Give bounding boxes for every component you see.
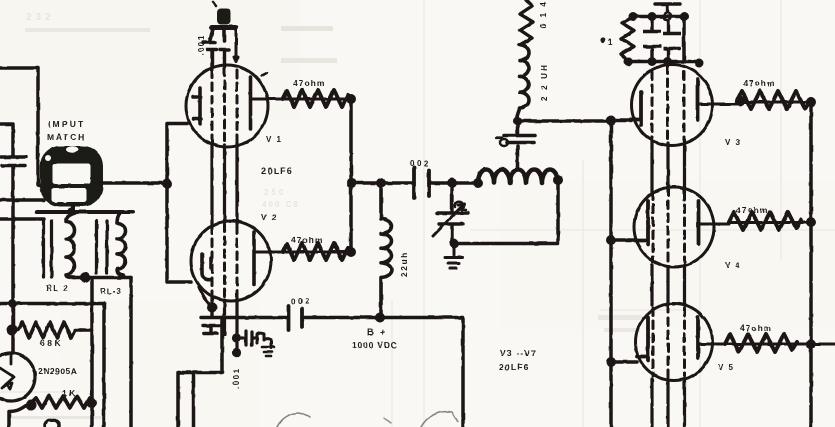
node 47ohm V4 right — [806, 217, 816, 227]
antenna T top — [655, 4, 680, 12]
node bus top — [346, 94, 356, 104]
node 47ohm V5 right — [806, 339, 816, 349]
label .01 circle — [500, 139, 508, 146]
wire right leg — [682, 17, 686, 62]
tube V4 envelope — [634, 187, 714, 267]
svg-text:V 2: V 2 — [261, 213, 278, 222]
plate V5 — [696, 317, 700, 358]
wire .01 to junction — [516, 121, 520, 136]
wire 68K right to bus — [81, 328, 92, 332]
svg-text:47ohm: 47ohm — [743, 78, 775, 88]
plate V3 — [696, 79, 700, 120]
wire stub y219 — [0, 217, 44, 221]
cathode V2 — [202, 254, 211, 280]
tube V1 envelope — [186, 65, 268, 147]
svg-text:20LF6: 20LF6 — [261, 166, 293, 176]
grid V5 (dashed) — [653, 305, 685, 379]
svg-text:232: 232 — [26, 12, 55, 23]
ground heater — [262, 347, 274, 356]
svg-text:1: 1 — [608, 38, 613, 47]
node lower rail 2 — [663, 57, 672, 66]
wire transformer bottom bar — [74, 276, 131, 279]
cathode V4 — [635, 201, 648, 244]
wire cathode lead V2 — [199, 287, 211, 306]
inductor 22uh — [381, 183, 392, 318]
node grid bus top — [606, 116, 616, 126]
wire C002 to trimmer node — [429, 181, 452, 185]
node rail-left — [8, 299, 17, 308]
heater columns below V5 — [652, 379, 685, 427]
resistor 47ohm V1 — [283, 90, 351, 107]
node grid bus V5 — [606, 357, 616, 367]
inductor 2.2UH — [517, 45, 529, 121]
node coil right — [553, 175, 563, 185]
wire toroid output — [99, 181, 167, 185]
capacitor .002 upper — [414, 168, 429, 198]
node coil left — [473, 178, 483, 188]
heater columns V1-V2 — [212, 143, 237, 224]
svg-text:20LF6: 20LF6 — [499, 362, 530, 372]
wire transformer top rail — [37, 210, 133, 214]
node .01 top — [513, 117, 522, 126]
wire V5 grid entry — [611, 360, 637, 364]
wire neutralizing top rail — [631, 15, 684, 19]
wire lower rail — [628, 60, 699, 64]
resistor 47ohm V5 — [725, 334, 797, 352]
wire cap right leg to tube — [234, 28, 238, 63]
capacitor .01 — [504, 136, 535, 143]
node 47ohm V3 left — [735, 96, 745, 106]
heater columns V3-V4 — [652, 140, 685, 192]
wire C002 to B+ box — [302, 316, 463, 320]
heater columns below V2 — [212, 298, 237, 354]
resistor 68K — [12, 322, 81, 338]
node heater junction 2 — [232, 348, 241, 357]
node grid bus V4 — [606, 235, 616, 245]
node rail 2 — [648, 12, 657, 21]
handwriting mark 2 — [384, 418, 391, 423]
svg-text:47ohm: 47ohm — [291, 235, 323, 245]
wire lower rail y307 — [0, 302, 104, 306]
inductor small bottom-left — [45, 420, 59, 427]
tube V3 envelope — [632, 65, 713, 146]
capacitor neutralizing 2 — [663, 20, 681, 62]
svg-text:V3 --V7: V3 --V7 — [500, 348, 537, 358]
plate V4 — [697, 201, 701, 244]
svg-text:68K: 68K — [40, 338, 63, 348]
svg-text:V 5: V 5 — [718, 363, 735, 372]
grid V2 (dashed) — [212, 224, 237, 299]
node transformer bottom — [80, 272, 90, 282]
node 1K right — [87, 398, 97, 408]
node heater junction 1 — [232, 333, 241, 342]
svg-text:1K: 1K — [62, 388, 77, 398]
wire vertical x89 — [90, 278, 94, 427]
svg-text:002: 002 — [410, 159, 431, 168]
grid V4 (dashed) — [653, 188, 685, 265]
capacitor .002 lower — [289, 306, 303, 330]
wire below C-in — [11, 167, 15, 200]
svg-text:2 2 UH: 2 2 UH — [540, 63, 549, 101]
wire V4 grid entry — [611, 238, 635, 242]
tube V5 envelope — [636, 304, 713, 381]
node cathode junction — [207, 303, 217, 313]
svg-text:47ohm: 47ohm — [293, 78, 325, 88]
wire ground rail y200 — [0, 198, 44, 202]
wire left feed — [0, 124, 13, 156]
grid V1 (dashed) — [212, 68, 237, 145]
wire trimmer node to coil — [452, 181, 478, 185]
wire grid riser V1 — [167, 124, 187, 184]
inductor pi-network coil — [478, 170, 558, 184]
svg-text:1000 VDC: 1000 VDC — [352, 340, 398, 350]
wire plate V2 out — [256, 251, 348, 254]
node lower rail 3 — [695, 59, 704, 68]
transformer toroid input match — [40, 146, 103, 207]
heater columns V4-V5 — [652, 265, 685, 305]
wire plate bus to C002 — [352, 181, 415, 185]
capacitor C-in — [1, 157, 26, 166]
inductor heater choke — [257, 333, 271, 348]
resistor 47ohm V3 — [737, 91, 811, 109]
svg-text:0 1 4: 0 1 4 — [539, 0, 548, 28]
node toroid-bottom junction — [68, 208, 75, 215]
node 47ohm V3 right — [806, 97, 816, 107]
wire coax stub box — [178, 318, 222, 427]
grid V3 (dashed) — [652, 66, 684, 144]
node rail 3 — [680, 12, 689, 21]
svg-text:2N2905A: 2N2905A — [38, 366, 77, 376]
cathode V5 — [637, 317, 648, 360]
resistor grid V3 — [621, 17, 634, 61]
wire top-left input — [0, 68, 44, 187]
capacitor .001 top blob — [217, 9, 231, 25]
svg-text:250: 250 — [264, 188, 286, 197]
node 22uh tap — [376, 178, 386, 188]
inductor RL3 winding — [117, 213, 126, 276]
svg-text:V 1: V 1 — [266, 135, 283, 144]
plate V1 — [249, 77, 253, 129]
capacitor heater bypass — [237, 331, 257, 345]
wire grid dropper V2 — [167, 184, 191, 283]
wire left vertical to Q1 — [11, 200, 15, 353]
wire plate V1 out — [252, 98, 348, 101]
svg-text:RL 2: RL 2 — [46, 284, 69, 293]
wire grid bus — [609, 121, 613, 427]
inductor RL2 winding — [66, 213, 75, 278]
node lower rail 1 — [648, 57, 657, 66]
node 68K left — [7, 325, 18, 336]
wire plate bus right — [809, 102, 813, 427]
svg-text:002: 002 — [291, 297, 312, 306]
wire interstage bus — [349, 99, 353, 252]
svg-text:22uh: 22uh — [399, 251, 409, 277]
svg-text:IMPUT: IMPUT — [48, 119, 85, 129]
node bus bottom — [346, 247, 356, 257]
wire plate V5 out — [699, 343, 835, 346]
wire coil tap to .01 — [516, 146, 520, 168]
ground trimmer — [445, 244, 463, 269]
node grid junction — [162, 179, 172, 189]
transformer RL2 core — [44, 221, 52, 277]
tick near V1 top — [261, 73, 267, 76]
capacitor cathode bypass — [201, 308, 222, 334]
svg-text:B +: B + — [367, 327, 387, 337]
transformer RL3 core — [97, 221, 108, 273]
wire vertical x107 — [102, 304, 106, 427]
wire vertical x131 — [129, 278, 133, 427]
handwriting mark 3 — [421, 412, 458, 427]
wire cathode rail to C002 — [222, 316, 288, 320]
cathode V1 — [193, 88, 201, 124]
resistor 47ohm V2 — [283, 243, 351, 260]
transistor Q1 2N2905A — [0, 353, 35, 401]
node 22uh bottom — [375, 313, 385, 323]
svg-text:MATCH: MATCH — [47, 132, 86, 142]
node resistor bottom — [624, 57, 633, 66]
svg-text:V 4: V 4 — [725, 261, 742, 270]
svg-text:47ohm: 47ohm — [736, 205, 768, 215]
svg-text:RL-3: RL-3 — [100, 287, 122, 296]
svg-text:47ohm: 47ohm — [740, 323, 772, 333]
svg-text:.001: .001 — [232, 367, 241, 389]
resistor 47ohm V4 — [729, 212, 801, 230]
resistor 4.7 top — [520, 0, 534, 45]
svg-text:V 3: V 3 — [725, 138, 742, 147]
node trimmer top — [447, 178, 457, 188]
wire plate V3 out — [699, 102, 810, 104]
plate V2 — [252, 232, 256, 284]
wire trimmer to coil end — [454, 181, 558, 244]
wire Q1 emitter down — [9, 404, 28, 427]
label dot-1 — [600, 37, 605, 42]
wire plate V4 out — [700, 223, 806, 225]
cathode V3 — [631, 92, 641, 125]
connector circle — [664, 13, 672, 21]
handwriting mark 1 — [277, 413, 310, 427]
wire B+ box right side — [461, 318, 465, 427]
node rail 1 — [629, 12, 638, 21]
resistor 1K — [30, 396, 92, 408]
wire V3 grid entry — [611, 119, 631, 123]
pins V1 top — [208, 50, 230, 69]
capacitor trimmer — [437, 183, 468, 242]
tube V2 envelope — [191, 221, 271, 301]
node bus mid — [347, 178, 357, 188]
svg-text:.001: .001 — [197, 34, 206, 56]
capacitor neutralizing 1 — [643, 17, 661, 62]
node trimmer bottom — [449, 239, 459, 249]
svg-text:400 C8: 400 C8 — [262, 200, 300, 209]
wire grid feed to V3 — [518, 119, 612, 123]
